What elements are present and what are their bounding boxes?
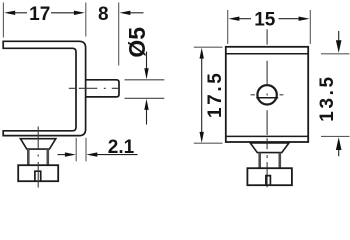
right view: screw neck shank walls bbox=[260, 153, 280, 169]
right view: top cover joint line bbox=[226, 53, 308, 55]
right view: block body outline bbox=[226, 47, 308, 142]
right view: bottom joint line bbox=[226, 135, 308, 137]
right view: circle horizontal centerline dashes bbox=[251, 94, 284, 96]
dimension 17: value label bbox=[29, 4, 50, 25]
dimension 2.1: value label bbox=[108, 137, 135, 158]
dimension 15: left extension line bbox=[227, 10, 229, 44]
svg-text:8: 8 bbox=[98, 4, 109, 25]
left view: stud horizontal centerline bbox=[69, 87, 120, 89]
dimension 13.5: lower outside arrow pointing up bbox=[336, 137, 342, 156]
right view: screw slot line through circle bbox=[256, 97, 278, 99]
svg-text:Ø5: Ø5 bbox=[124, 27, 150, 58]
dimension 17.5: value label (rotated) bbox=[205, 71, 226, 118]
right view: clamping screw head (frustum) bbox=[250, 143, 289, 153]
dimension 17: dimension line with arrows bbox=[4, 11, 85, 15]
dimension 15: dimension line with arrows bbox=[228, 17, 309, 21]
right view: knurled nut bbox=[247, 168, 292, 185]
dimension 17.5: top extension line bbox=[194, 46, 223, 48]
svg-text:17.5: 17.5 bbox=[205, 71, 226, 118]
svg-text:2.1: 2.1 bbox=[108, 137, 135, 158]
right view: vertical centerline bbox=[266, 29, 268, 187]
svg-text:15: 15 bbox=[254, 9, 276, 30]
dimension 17.5: bottom extension line bbox=[194, 142, 223, 144]
dimension 2.1: left extension line bbox=[75, 138, 77, 162]
dimension Ø5: top extension line bbox=[125, 79, 165, 81]
dimension Ø5: bottom extension line bbox=[125, 97, 165, 99]
left view: C-profile clamp body outline bbox=[3, 41, 85, 135]
dimension Ø5: lower arrow pointing up bbox=[144, 99, 148, 125]
left view: screw vertical centerline bbox=[37, 127, 39, 188]
left view: knurled nut bbox=[18, 165, 58, 181]
right view: screw hole circle bbox=[257, 85, 276, 104]
dimension 8: right extension line bbox=[118, 3, 120, 66]
dimension 17.5: dimension line with arrows bbox=[200, 48, 204, 143]
left view: nut slot bbox=[35, 171, 41, 181]
dimension 2.1: right extension line bbox=[85, 138, 87, 162]
left view: round stud Ø5 bbox=[86, 80, 119, 97]
left view: clamping screw head (frustum) bbox=[20, 139, 55, 149]
dimension 2.1: right outside arrow pointing left with leader bbox=[86, 152, 137, 156]
dimension 15: value label bbox=[254, 9, 276, 30]
dimension 8: value label bbox=[98, 4, 109, 25]
dimension 17/8: shared extension line bbox=[85, 3, 87, 37]
dimension 13.5: value label (rotated) bbox=[317, 74, 338, 121]
svg-text:17: 17 bbox=[29, 4, 50, 25]
dimension Ø5: upper arrow pointing down bbox=[144, 52, 148, 80]
dimension 13.5: top extension line bbox=[321, 53, 350, 55]
dimension 17: left extension line bbox=[2, 3, 4, 38]
dimension 13.5: bottom extension line bbox=[321, 135, 350, 137]
left view: screw neck shank walls bbox=[28, 149, 48, 165]
dimension Ø5: value label (rotated) bbox=[124, 27, 150, 58]
svg-text:13.5: 13.5 bbox=[317, 74, 338, 121]
dimension 2.1: left outside arrow pointing right bbox=[58, 152, 76, 156]
dimension 15: right extension line bbox=[309, 10, 311, 44]
dimension 8: outside arrow pointing left bbox=[119, 11, 143, 15]
dimension 13.5: upper outside arrow pointing down bbox=[336, 31, 342, 53]
right view: nut slot bbox=[266, 176, 271, 186]
